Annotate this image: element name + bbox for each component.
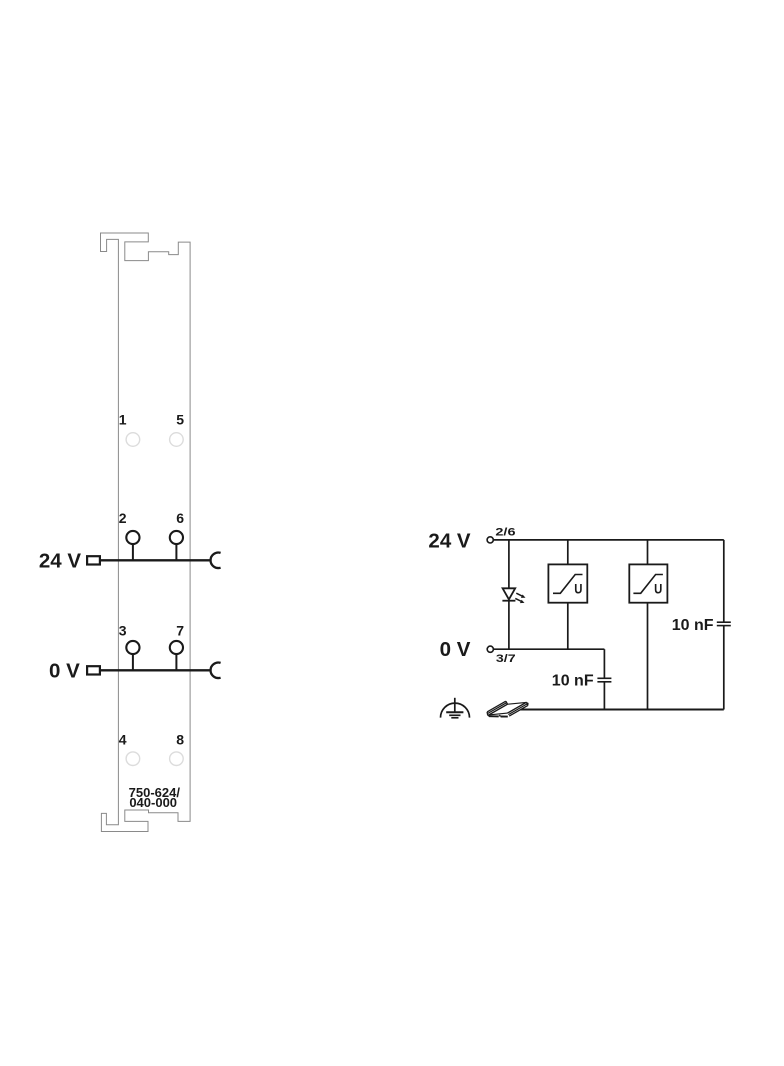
wire 0V to capacitor C1 (603, 649, 605, 678)
surge filter U1 box (548, 564, 587, 602)
LED D1 (502, 588, 515, 600)
svg-text:8: 8 (176, 732, 184, 748)
terminal 1 circle (126, 433, 140, 447)
svg-text:3: 3 (119, 623, 127, 639)
wire 24V bus left module (101, 559, 211, 561)
rail left flange body (487, 701, 507, 715)
wire LED branch upper (508, 540, 510, 588)
DIN carrier rail symbol (487, 701, 528, 716)
left flange inner edge (489, 704, 508, 715)
front cut notch (499, 715, 501, 716)
LED light arrow 2 (515, 598, 524, 603)
front left end cap (487, 712, 489, 716)
wire 24V rail (493, 539, 723, 541)
node 3/7 terminal circle (487, 646, 493, 652)
right flange outer edge (509, 705, 528, 716)
wire filter2 top (647, 540, 649, 565)
svg-text:0 V: 0 V (49, 660, 80, 683)
wire filter2 bottom (647, 603, 649, 710)
wire filter1 bottom (567, 603, 569, 649)
svg-text:24 V: 24 V (39, 550, 81, 573)
stem terminal 2 (132, 545, 134, 561)
svg-text:5: 5 (176, 412, 184, 428)
wire 0V rail (494, 648, 605, 650)
terminal 4 circle (126, 752, 140, 766)
front cut left mark (489, 715, 499, 717)
wire capacitor C2 to ground bus (723, 626, 725, 710)
svg-text:7: 7 (176, 623, 184, 639)
module outline 750-624 (101, 233, 191, 832)
svg-text:10 nF: 10 nF (552, 672, 594, 689)
capacitor C2 10nF (717, 622, 731, 625)
svg-text:24 V: 24 V (428, 529, 470, 552)
stem terminal 3 (132, 655, 134, 671)
connector box 24V (87, 556, 100, 564)
left flange outer edge (487, 701, 506, 712)
wire LED branch lower (508, 601, 510, 650)
svg-text:040-000: 040-000 (129, 795, 177, 810)
rail channel web (489, 702, 526, 715)
svg-text:4: 4 (119, 732, 127, 748)
terminal 3 circle (126, 641, 139, 654)
svg-text:U: U (654, 582, 662, 597)
wire filter1 top (567, 540, 569, 565)
svg-text:U: U (574, 582, 582, 597)
connector box 0V (87, 666, 100, 674)
ground bus wire (518, 709, 724, 711)
svg-text:6: 6 (176, 510, 184, 526)
filter U2 curve (633, 575, 663, 594)
wire 24V to capacitor C2 (723, 540, 725, 622)
LED light arrow 1 (516, 593, 525, 598)
terminal 8 circle (170, 752, 184, 766)
svg-text:2: 2 (119, 510, 127, 526)
node 2/6 terminal circle (487, 537, 493, 543)
right flange mid edge (508, 704, 527, 715)
earth ground symbol (441, 698, 470, 718)
terminal 6 circle (170, 531, 183, 544)
svg-text:1: 1 (119, 412, 127, 428)
wire capacitor C1 to ground bus (603, 682, 605, 710)
terminal 5 circle (170, 433, 184, 447)
stem terminal 7 (175, 655, 177, 671)
clamp contact arc 24V (211, 553, 221, 569)
left flange mid edge (488, 703, 507, 714)
right flange inner edge (508, 702, 527, 713)
svg-text:2/6: 2/6 (495, 526, 515, 538)
svg-text:3/7: 3/7 (496, 653, 516, 665)
terminal 7 circle (170, 641, 183, 654)
clamp contact arc 0V (211, 663, 221, 679)
terminal 2 circle (126, 531, 139, 544)
stem terminal 6 (175, 545, 177, 561)
svg-text:10 nF: 10 nF (672, 617, 714, 634)
right flange tip blob (526, 702, 529, 706)
svg-text:0 V: 0 V (440, 638, 471, 661)
capacitor C1 10nF (597, 678, 611, 682)
filter U1 curve (553, 575, 583, 594)
rail right flange body (508, 702, 528, 716)
surge filter U2 box (629, 564, 667, 602)
wire 0V bus left module (101, 669, 211, 671)
front cut right mark (501, 716, 508, 718)
left flange top end cap (506, 701, 508, 704)
